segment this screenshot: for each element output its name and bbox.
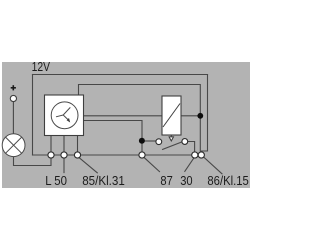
terminal circle 86	[198, 152, 204, 158]
switch lever	[163, 142, 182, 150]
wire flasher bottom stub 3	[77, 136, 79, 152]
terminal circle L	[48, 152, 54, 158]
flasher unit circle	[51, 102, 78, 129]
leader line terminal 50	[63, 158, 65, 172]
wire coil right lead	[181, 115, 200, 117]
leader line terminal 30	[185, 158, 194, 172]
wire battery to lamp	[12, 102, 14, 134]
flasher symbol hands	[56, 107, 70, 119]
wire coil left lead	[84, 115, 162, 117]
wire lamp bottom to terminal L	[14, 157, 52, 166]
wire switch contact 2 to terminal 30	[188, 142, 195, 152]
svg-text:86/Kl.15: 86/Kl.15	[207, 174, 248, 188]
wire flasher bottom stub 2	[63, 136, 65, 152]
switch contact circle 2	[182, 139, 188, 145]
wire junction to switch contact 1	[145, 140, 156, 142]
lamp H1	[2, 134, 25, 157]
terminal circle 50	[61, 152, 67, 158]
wire right vertical of outer loop	[201, 75, 207, 154]
svg-text:12V: 12V	[32, 60, 51, 74]
leader line terminal 86/Kl.15	[204, 157, 222, 174]
battery plus sign	[11, 85, 16, 90]
flasher unit box U1	[45, 95, 84, 136]
wire flasher bottom stub 1	[50, 136, 52, 152]
svg-text:87: 87	[160, 174, 172, 188]
battery positive terminal	[10, 95, 16, 101]
leader line terminal 87	[144, 158, 159, 172]
wire left vertical of outer loop	[32, 75, 34, 156]
wire bottom terminal bus	[33, 154, 202, 156]
relay actuator arrow	[169, 136, 173, 141]
wire flasher lower-right lead to junction	[84, 121, 142, 139]
terminal circle 30	[192, 152, 198, 158]
gray panel background	[2, 62, 250, 188]
junction dot at coil/rail2	[197, 113, 203, 119]
leader line terminal 85/Kl.31	[79, 158, 97, 173]
junction dot at switch feed	[139, 138, 145, 144]
relay coil diagonal	[163, 104, 180, 128]
switch contact circle 1	[156, 139, 162, 145]
terminal circle 85	[74, 152, 80, 158]
svg-text:L 50: L 50	[45, 174, 67, 188]
terminal circle 87	[139, 152, 145, 158]
svg-text:30: 30	[180, 174, 192, 188]
flasher symbol arrowhead	[67, 118, 71, 123]
wire second rail	[79, 85, 201, 153]
relay coil K1	[162, 96, 181, 135]
wire junction down to terminal 87	[141, 144, 143, 152]
svg-text:85/Kl.31: 85/Kl.31	[82, 174, 125, 188]
wire 12V top rail	[33, 74, 208, 76]
